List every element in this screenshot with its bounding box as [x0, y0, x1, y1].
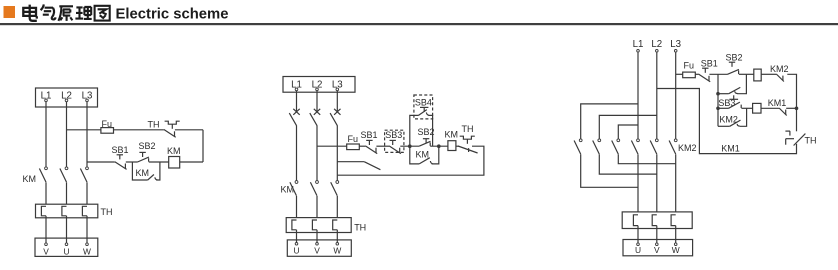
wire TH to return — [337, 146, 484, 175]
thermal element — [62, 206, 67, 216]
wire breaker to KM contact — [296, 125, 298, 180]
motor terminal box U V W — [287, 240, 351, 256]
pushbutton SB3 (remote stop, NC) in dashed box — [385, 130, 404, 152]
svg-text:SB4: SB4 — [415, 98, 432, 108]
svg-text:L1: L1 — [633, 39, 644, 50]
terminal V — [45, 243, 48, 246]
terminal U — [65, 243, 68, 246]
wire phase down — [316, 91, 318, 111]
left rail — [717, 74, 719, 126]
svg-text:KM: KM — [23, 174, 37, 184]
L3 spare switch branch — [337, 161, 364, 163]
svg-text:SB2: SB2 — [418, 127, 435, 137]
wire SB1 to SB3 — [376, 145, 389, 147]
svg-text:SB2: SB2 — [139, 141, 156, 151]
svg-text:Electric scheme: Electric scheme — [116, 6, 229, 23]
right rail to TH contact — [796, 108, 798, 131]
thermal element — [652, 215, 657, 226]
terminal W — [86, 243, 89, 246]
svg-text:SB1: SB1 — [112, 145, 129, 155]
wire coil to KM2 interlock — [761, 73, 776, 75]
svg-text:TH: TH — [354, 223, 366, 233]
wire fuse to TH contact — [114, 129, 164, 131]
svg-text:TH: TH — [805, 136, 817, 146]
thermal element — [82, 206, 87, 216]
wire L3 to fuse — [676, 73, 683, 75]
wire breaker to KM contact — [336, 125, 338, 180]
wire KM2 pole2 tap — [599, 115, 657, 138]
breaker pole — [293, 109, 299, 115]
wire KM2 pole1 tap — [581, 104, 638, 139]
header rule — [0, 23, 838, 25]
svg-text:TH: TH — [462, 124, 474, 134]
thermal element — [41, 206, 46, 216]
wire L1 down — [45, 102, 47, 167]
svg-text:W: W — [672, 245, 680, 255]
contactor KM1 main contacts — [631, 141, 638, 155]
circuit 1: supply terminal box — [36, 88, 98, 107]
breaker pole — [334, 109, 340, 115]
svg-text:W: W — [333, 246, 341, 256]
wire L2 down — [656, 52, 658, 138]
svg-text:L2: L2 — [651, 39, 662, 50]
header orange bullet — [4, 6, 16, 18]
wire coil to TH contact — [456, 145, 459, 147]
wire coil to KM1 interlock — [761, 107, 779, 109]
svg-text:KM: KM — [136, 168, 150, 178]
svg-text:U: U — [63, 246, 69, 256]
junction — [408, 144, 412, 148]
svg-text:U: U — [635, 245, 641, 255]
svg-text:TH: TH — [148, 119, 160, 129]
wire to KM coil — [180, 161, 203, 163]
wire to right rail — [787, 74, 796, 108]
thermal element — [312, 220, 317, 230]
svg-text:KM2: KM2 — [770, 64, 789, 74]
return wire to L2 — [657, 89, 797, 154]
breaker pole — [314, 109, 320, 115]
svg-text:V: V — [654, 245, 660, 255]
svg-text:KM: KM — [445, 130, 459, 140]
wire SB1 to SB2 — [126, 161, 138, 163]
wire KM2 pole3 tap — [618, 125, 638, 139]
wire SB1 to rail — [709, 73, 727, 75]
wire fuse to SB1 — [359, 145, 365, 147]
header title 电气原理图 (drawn strokes) — [23, 4, 109, 21]
thermal relay TH heater box — [36, 204, 98, 218]
svg-text:U: U — [293, 246, 299, 256]
terminal U — [295, 243, 298, 246]
thermal relay TH heater box — [286, 218, 351, 233]
junction — [795, 107, 799, 111]
svg-text:V: V — [43, 246, 49, 256]
svg-text:SB1: SB1 — [701, 58, 718, 68]
svg-text:Fu: Fu — [684, 60, 695, 70]
wire SB3 to node — [400, 145, 419, 147]
wire pole outputs paired — [581, 154, 638, 187]
svg-text:W: W — [83, 246, 91, 256]
KM1 self-holding contact row — [718, 93, 729, 95]
svg-text:KM2: KM2 — [678, 143, 697, 153]
motor terminal box U V W — [623, 240, 693, 256]
wire SB2 to KM1 coil — [739, 73, 754, 75]
wire fuse to SB1 — [695, 73, 698, 75]
svg-text:Fu: Fu — [348, 134, 359, 144]
wire breaker to KM contact — [316, 125, 318, 180]
circuit 2: supply terminal box — [283, 77, 355, 93]
thermal element — [292, 220, 297, 230]
thermal relay heater box — [622, 212, 692, 229]
terminal U — [637, 243, 640, 246]
wire L2 down — [66, 102, 68, 167]
wire TH to corner — [175, 129, 203, 131]
motor terminal box V U W — [35, 238, 98, 256]
pushbutton SB4 (remote start) branch in dashed box — [410, 115, 419, 146]
wire L3 down — [86, 102, 88, 167]
wire L2 to fuse — [317, 145, 347, 147]
wire SB2 to node — [430, 145, 448, 147]
wire L3 down — [675, 52, 677, 138]
svg-text:SB2: SB2 — [726, 53, 743, 63]
wire phase down — [336, 91, 338, 111]
wire to right rail junction — [786, 107, 796, 109]
junction — [716, 107, 720, 111]
wire L3 to SB1 — [87, 161, 115, 163]
thermal element — [633, 215, 638, 226]
junction — [716, 92, 720, 96]
thermal element — [333, 220, 338, 230]
svg-text:KM1: KM1 — [768, 98, 787, 108]
wire to thermal box — [637, 154, 639, 212]
thermal element — [671, 215, 676, 226]
svg-text:L3: L3 — [670, 39, 681, 50]
wire L2 to fuse — [67, 129, 101, 131]
KM2 coil — [753, 103, 761, 113]
svg-text:SB1: SB1 — [361, 130, 378, 140]
terminal V — [656, 243, 659, 246]
terminal W — [674, 243, 677, 246]
terminal W — [336, 243, 339, 246]
svg-text:KM: KM — [167, 146, 181, 156]
svg-text:KM: KM — [416, 150, 430, 160]
svg-text:V: V — [314, 246, 320, 256]
wire L1 down — [637, 52, 639, 138]
wire phase down — [296, 91, 298, 111]
svg-text:KM1: KM1 — [721, 144, 740, 154]
junction — [437, 144, 441, 148]
KM1 coil — [754, 69, 761, 81]
svg-text:TH: TH — [101, 207, 113, 217]
svg-text:SB3: SB3 — [385, 130, 402, 140]
terminal V — [316, 243, 319, 246]
wire corner down — [202, 130, 204, 162]
wire SB2 to coil — [149, 161, 169, 163]
